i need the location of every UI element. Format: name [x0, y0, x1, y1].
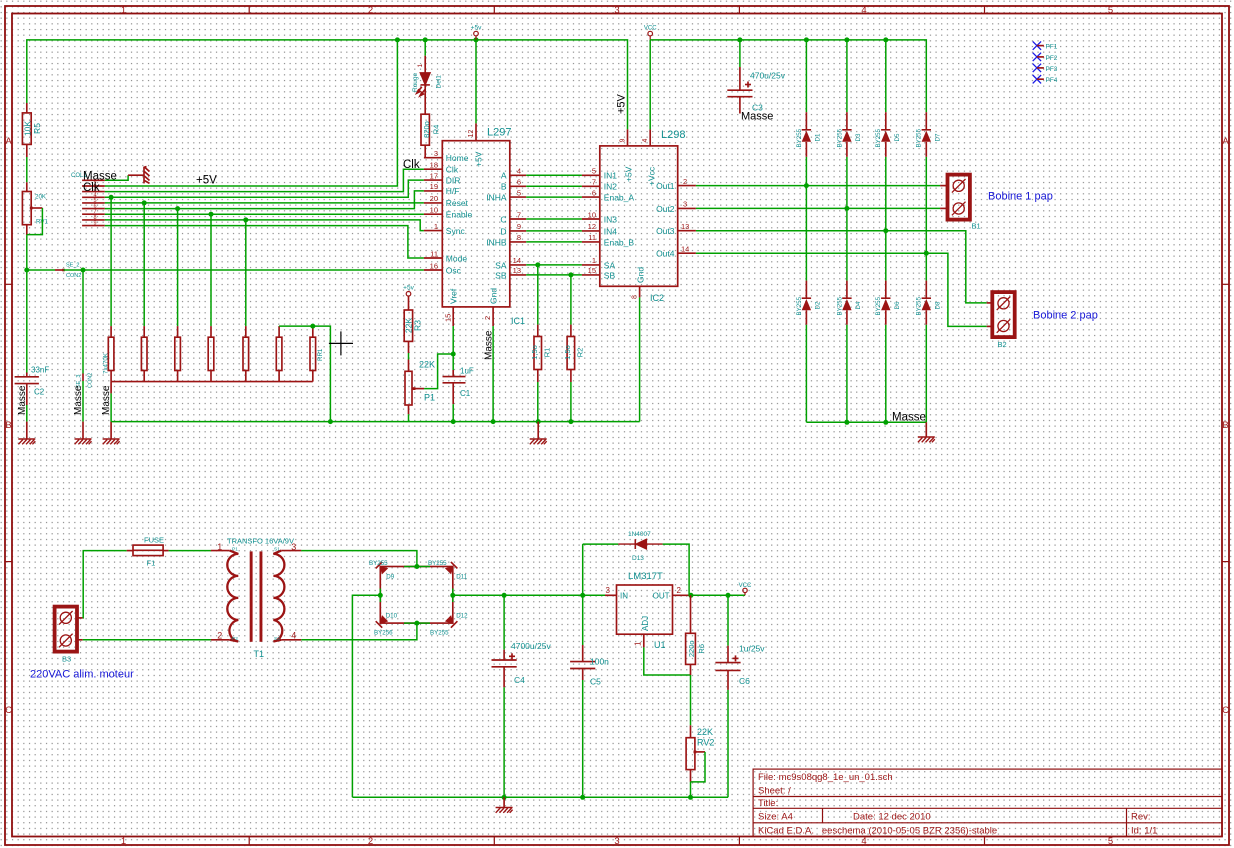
svg-text:1: 1	[417, 64, 424, 68]
svg-text:Vref: Vref	[449, 288, 459, 304]
svg-text:R1: R1	[543, 348, 552, 358]
svg-text:8: 8	[631, 295, 638, 299]
no-connect PF3	[1033, 64, 1041, 72]
svg-text:13: 13	[681, 222, 689, 231]
svg-text:1: 1	[121, 836, 126, 847]
node RV1/osc row junction	[24, 268, 29, 273]
connector CON2 pin (lower)	[82, 374, 84, 382]
transformer T1	[211, 551, 301, 640]
svg-text:R3: R3	[413, 320, 423, 331]
wire masse branch down	[82, 270, 84, 374]
svg-text:1,5o: 1,5o	[530, 345, 539, 360]
svg-text:CON2: CON2	[66, 273, 81, 279]
svg-text:B: B	[1222, 420, 1228, 431]
svg-text:+5V: +5V	[474, 151, 484, 167]
capacitor C5	[582, 595, 584, 645]
wire bridge minus to ground	[352, 595, 380, 797]
svg-text:10: 10	[588, 210, 596, 219]
svg-text:B: B	[501, 182, 507, 192]
Vcc rail wire	[650, 40, 926, 112]
svg-text:IN2: IN2	[604, 182, 618, 192]
svg-text:12: 12	[468, 130, 475, 138]
svg-text:INHA: INHA	[486, 193, 507, 203]
junction SA/R1	[535, 262, 540, 267]
svg-text:SE_2: SE_2	[66, 263, 79, 269]
svg-text:PF3: PF3	[1046, 66, 1058, 73]
masse rail diodes	[806, 421, 926, 423]
wire row6 to H/F pin 19	[105, 191, 424, 209]
svg-text:7x470K: 7x470K	[103, 352, 110, 374]
svg-text:PF1: PF1	[1046, 44, 1058, 51]
Vcc power symbol (output)	[743, 588, 747, 595]
svg-text:DIR: DIR	[446, 175, 461, 185]
IC2 left pin stubs	[582, 175, 600, 275]
wire row3 Clk to pin 18	[105, 169, 424, 191]
IC2 L298 body	[600, 146, 678, 286]
capacitor C2	[15, 373, 39, 406]
IC2 left pin names	[604, 171, 635, 281]
resistor network common rail	[111, 381, 313, 383]
svg-text:9: 9	[517, 222, 521, 231]
svg-text:17: 17	[430, 171, 438, 180]
ground symbol (sideways) row1	[128, 167, 149, 184]
potentiometer P1	[408, 360, 410, 372]
diode D6	[885, 281, 887, 299]
svg-text:OUT: OUT	[653, 592, 670, 601]
svg-text:4: 4	[861, 5, 866, 16]
svg-text:2: 2	[483, 316, 492, 320]
svg-text:RV2: RV2	[697, 738, 714, 748]
wires IC1 to IC2	[526, 175, 582, 275]
capacitor C6	[727, 595, 729, 645]
svg-text:H/F: H/F	[446, 186, 460, 196]
svg-text:7: 7	[517, 210, 521, 219]
wire P1 to rail	[408, 414, 410, 421]
svg-text:Clk: Clk	[83, 182, 100, 194]
svg-text:D10: D10	[386, 613, 398, 620]
wire ADJ to R6 bottom	[644, 647, 691, 675]
svg-text:D9: D9	[386, 574, 394, 581]
svg-text:4: 4	[642, 139, 649, 143]
junction +5V rail / LED	[423, 37, 428, 42]
wire T1 pin3 to bridge	[301, 551, 417, 567]
svg-text:1uF: 1uF	[460, 367, 474, 376]
svg-text:2: 2	[368, 836, 373, 847]
IC2 right pin numbers	[681, 177, 689, 254]
ground on rail	[537, 422, 539, 439]
svg-text:U1: U1	[654, 640, 666, 650]
Vcc power symbol	[648, 31, 653, 40]
potentiometer RV2	[690, 725, 692, 737]
svg-text:15: 15	[588, 266, 596, 275]
wire C2 to ground	[26, 405, 28, 422]
junction +5V rail / riser	[395, 37, 400, 42]
svg-text:P1: P1	[232, 547, 238, 553]
svg-text:P2: P2	[232, 636, 238, 642]
IC1 right pin names	[486, 171, 507, 281]
+5V symbol R3	[406, 292, 411, 297]
svg-text:3: 3	[683, 200, 687, 209]
svg-text:Masse: Masse	[892, 412, 926, 424]
svg-text:BY255: BY255	[796, 296, 803, 315]
svg-text:13: 13	[513, 266, 521, 275]
svg-text:FUSE: FUSE	[144, 536, 164, 545]
svg-text:Id: 1/1: Id: 1/1	[1131, 826, 1157, 837]
svg-text:9: 9	[93, 221, 96, 227]
connector COL1 pin numbers	[93, 181, 96, 227]
svg-text:SA: SA	[604, 260, 616, 270]
svg-text:D1: D1	[815, 133, 822, 141]
ground below masse branch	[82, 422, 84, 439]
wire IC1 gnd to rail	[492, 326, 494, 422]
svg-text:11: 11	[588, 233, 596, 242]
wire RV1 down to node	[26, 235, 28, 270]
resistor R1	[537, 265, 539, 325]
svg-text:C6: C6	[739, 676, 750, 686]
svg-text:Bobine 1 pap: Bobine 1 pap	[988, 191, 1053, 203]
svg-text:Masse: Masse	[17, 385, 28, 415]
wire bridge plus to LM317 IN	[453, 594, 605, 596]
title block	[753, 769, 1222, 836]
svg-text:R6: R6	[697, 644, 706, 654]
svg-text:BY255: BY255	[836, 128, 843, 147]
svg-text:3: 3	[614, 836, 619, 847]
svg-text:+5V: +5V	[196, 175, 217, 187]
svg-text:Sheet: /: Sheet: /	[758, 786, 791, 797]
+5V top rail wire	[27, 40, 628, 129]
svg-text:D6: D6	[894, 301, 901, 309]
svg-text:4: 4	[517, 167, 521, 176]
svg-text:D: D	[500, 226, 506, 236]
IC1 left pin names	[446, 153, 473, 275]
resistor R2	[570, 275, 572, 325]
svg-text:5: 5	[1108, 836, 1113, 847]
svg-text:Title:: Title:	[758, 798, 778, 809]
op-amp U1 ... IC1 L297 body	[442, 141, 510, 307]
svg-text:100n: 100n	[590, 657, 609, 667]
diode D11	[445, 562, 458, 575]
connector B1	[948, 175, 970, 220]
wire row5 to Reset pin 20	[105, 202, 424, 204]
diode D12	[445, 615, 458, 628]
svg-text:S2: S2	[274, 636, 280, 642]
svg-text:Gnd: Gnd	[489, 288, 499, 304]
IC1 right pin numbers	[513, 167, 521, 276]
LM317 ADJ pin	[643, 634, 645, 647]
bridge rectifier body	[380, 567, 453, 624]
IC1 bottom pins Vref Gnd	[452, 307, 454, 326]
diode D10	[376, 615, 389, 628]
svg-text:19: 19	[430, 182, 438, 191]
wire R6 to RV2	[690, 675, 692, 725]
svg-text:F1: F1	[147, 559, 156, 568]
svg-text:IN3: IN3	[604, 214, 618, 224]
svg-text:Masse: Masse	[741, 111, 773, 123]
connector B2	[992, 292, 1014, 337]
svg-text:D4: D4	[855, 301, 862, 309]
svg-text:BY256: BY256	[374, 630, 393, 637]
svg-text:16: 16	[430, 261, 438, 270]
wire OUT node	[691, 594, 745, 596]
svg-text:D11: D11	[456, 574, 467, 581]
svg-text:Clk: Clk	[403, 159, 420, 171]
svg-text:+5V: +5V	[616, 93, 628, 114]
LM317 IN pin	[605, 594, 617, 596]
diode D9	[376, 562, 389, 575]
osc row wire	[27, 269, 55, 271]
svg-text:Home: Home	[446, 153, 469, 163]
IC1 left pin stubs	[424, 158, 442, 270]
wire C1 to rail	[452, 404, 454, 421]
svg-text:P1: P1	[424, 393, 435, 403]
IC2 left pin numbers	[588, 167, 596, 276]
svg-text:14: 14	[681, 245, 689, 254]
junction osc row / masse branch	[81, 268, 86, 273]
svg-text:470u/25v: 470u/25v	[750, 71, 786, 81]
svg-text:A: A	[1222, 136, 1229, 147]
svg-text:Osc: Osc	[446, 265, 462, 275]
svg-text:BY255: BY255	[875, 128, 882, 147]
svg-text:5: 5	[592, 167, 596, 176]
svg-text:10: 10	[430, 206, 438, 215]
svg-text:PF4: PF4	[1046, 77, 1058, 84]
svg-text:11: 11	[430, 249, 438, 258]
svg-text:Enab_B: Enab_B	[604, 237, 635, 247]
svg-text:33nF: 33nF	[31, 366, 49, 375]
svg-text:Rouge: Rouge	[412, 72, 419, 92]
wire Out1	[696, 185, 940, 187]
svg-text:5: 5	[517, 188, 521, 197]
svg-text:Clk: Clk	[446, 165, 459, 175]
resistor R3	[408, 296, 410, 310]
svg-text:C: C	[500, 214, 506, 224]
svg-text:22K: 22K	[697, 727, 713, 737]
svg-text:1,5o: 1,5o	[563, 345, 572, 360]
svg-text:D7: D7	[935, 133, 942, 141]
no-connect PF4	[1033, 75, 1041, 83]
svg-text:Date: 12 dec 2010: Date: 12 dec 2010	[853, 812, 931, 823]
+5V power symbol	[474, 31, 479, 40]
svg-text:A: A	[501, 171, 507, 181]
svg-text:SB: SB	[604, 270, 616, 280]
svg-text:Enable: Enable	[446, 210, 473, 220]
wire B3 pin1 to fuse	[83, 551, 127, 618]
B3 pin stubs	[77, 617, 83, 619]
svg-text:L297: L297	[487, 127, 511, 139]
svg-text:IN: IN	[620, 592, 628, 601]
svg-text:Sync: Sync	[446, 226, 466, 236]
svg-text:BY255: BY255	[369, 560, 388, 567]
svg-text:1: 1	[121, 5, 126, 16]
svg-text:R2: R2	[576, 348, 585, 358]
wire B3 pin2 to transformer	[83, 639, 211, 641]
wire row9 to Mode pin 11	[105, 226, 424, 258]
svg-text:18: 18	[430, 161, 438, 170]
svg-text:S1: S1	[274, 547, 280, 553]
svg-text:B3: B3	[62, 655, 71, 664]
svg-text:1: 1	[434, 222, 438, 231]
IC1 left pin numbers	[430, 149, 438, 270]
wire Out2	[696, 207, 940, 209]
svg-text:D8: D8	[935, 301, 942, 309]
resistor network RR1 bodies	[108, 326, 315, 393]
svg-text:+5v: +5v	[471, 25, 482, 32]
svg-text:LM317T: LM317T	[628, 571, 663, 582]
svg-text:VCC: VCC	[739, 583, 752, 589]
svg-text:C2: C2	[34, 388, 45, 397]
wire row1 Masse to ground symbol	[105, 175, 128, 180]
svg-text:9: 9	[619, 139, 626, 143]
wire Out4	[696, 253, 987, 326]
junction +5V rail / +5V symbol	[474, 37, 479, 42]
diode D8	[925, 281, 927, 299]
svg-text:220o: 220o	[687, 640, 696, 657]
svg-text:BY255: BY255	[430, 630, 449, 637]
resistor R4	[421, 114, 429, 145]
no-connect PF2	[1033, 53, 1041, 61]
svg-text:D3: D3	[855, 133, 862, 141]
svg-text:TRANSFO 16VA/9V: TRANSFO 16VA/9V	[227, 537, 294, 546]
wire T1 pin4 to bridge	[301, 623, 417, 640]
svg-text:3: 3	[614, 5, 619, 16]
wire RV2 to rail	[690, 782, 692, 797]
cursor cross	[329, 331, 353, 355]
svg-text:7: 7	[592, 178, 596, 187]
svg-text:Masse: Masse	[101, 385, 112, 415]
capacitor C3	[739, 40, 741, 67]
svg-text:1u/25v: 1u/25v	[739, 644, 765, 654]
svg-text:CON2: CON2	[88, 373, 94, 388]
diode D5 column	[885, 40, 887, 422]
svg-text:SB: SB	[495, 270, 507, 280]
ground network common	[110, 422, 112, 439]
wire fuse to transformer	[169, 550, 211, 552]
svg-text:B1: B1	[972, 222, 981, 231]
svg-text:12: 12	[588, 222, 596, 231]
potentiometer RV1	[26, 182, 28, 191]
svg-text:IN4: IN4	[604, 226, 618, 236]
svg-text:C: C	[5, 705, 12, 716]
svg-text:IC2: IC2	[650, 293, 664, 303]
svg-text:ADJ: ADJ	[641, 616, 650, 631]
diode D1 column	[805, 40, 807, 422]
svg-text:2: 2	[683, 177, 687, 186]
svg-text:+5v: +5v	[403, 285, 414, 292]
LM317 OUT pin	[673, 594, 691, 596]
svg-text:BY255: BY255	[916, 128, 923, 147]
svg-text:B: B	[5, 420, 11, 431]
resistor R5	[26, 103, 28, 113]
wire osc row to pin 16	[64, 269, 424, 271]
svg-text:T1: T1	[254, 649, 265, 659]
svg-text:File: mc9s08qg8_1e_un_01.sch: File: mc9s08qg8_1e_un_01.sch	[758, 772, 893, 783]
bottom supply rail	[352, 796, 728, 798]
svg-text:1: 1	[592, 256, 596, 265]
svg-text:C: C	[1222, 705, 1229, 716]
svg-text:6: 6	[517, 178, 521, 187]
capacitor C1	[443, 370, 466, 404]
svg-text:A: A	[5, 136, 12, 147]
diode D7 column	[925, 157, 927, 423]
svg-text:Out2: Out2	[656, 204, 675, 214]
svg-text:6: 6	[592, 188, 596, 197]
junction dots bus rows	[109, 195, 114, 200]
wire RV1 wiper loop	[27, 208, 43, 235]
svg-text:SA: SA	[495, 260, 507, 270]
svg-text:Gnd: Gnd	[636, 267, 646, 283]
voltage regulator U1 LM317	[617, 585, 673, 634]
IC2 top pins	[627, 129, 629, 146]
diode D3 column	[846, 40, 848, 422]
svg-text:D12: D12	[456, 613, 468, 620]
wire P1 wiper to Vref node	[424, 354, 452, 389]
svg-text:B2: B2	[998, 340, 1007, 349]
svg-text:15: 15	[444, 314, 453, 322]
svg-text:RR1: RR1	[317, 348, 324, 361]
wire resistors 6-7 to ground rail	[279, 326, 330, 422]
wire to ground	[82, 381, 84, 422]
svg-text:1: 1	[634, 641, 643, 646]
svg-text:BY255: BY255	[836, 296, 843, 315]
wire node down to C2	[26, 270, 28, 373]
wire row7 to Enable pin 10	[105, 213, 424, 215]
rail riser to IC2 gnd	[639, 297, 641, 421]
connector COL1 pins	[82, 180, 105, 225]
svg-text:INHB: INHB	[486, 237, 507, 247]
resistor network verticals	[111, 197, 246, 326]
svg-text:BY255: BY255	[428, 560, 447, 567]
svg-text:VCC: VCC	[644, 26, 657, 32]
IC2 right pin stubs	[678, 186, 696, 254]
svg-text:IN1: IN1	[604, 171, 618, 181]
diode D13 1N4007	[582, 544, 584, 595]
IC2 right pin names	[656, 181, 675, 259]
resistor R6	[690, 595, 692, 633]
svg-text:14: 14	[513, 256, 521, 265]
svg-text:C1: C1	[460, 389, 471, 398]
svg-text:IC1: IC1	[511, 316, 525, 326]
connector CON2 pin (1-pin)	[55, 269, 64, 271]
svg-text:D2: D2	[815, 301, 822, 309]
wire R3 to P1	[408, 353, 410, 360]
svg-text:820o: 820o	[422, 121, 431, 138]
svg-text:+5V: +5V	[624, 166, 634, 182]
svg-text:R4: R4	[432, 125, 441, 135]
svg-text:Reset: Reset	[446, 198, 469, 208]
wire row2 to +5V riser	[105, 40, 398, 186]
IC1 right pin stubs	[510, 175, 526, 275]
capacitor C4	[503, 595, 505, 649]
svg-text:KiCad E.D.A. eeschema (2010-: KiCad E.D.A. eeschema (2010-05-05 BZR 23…	[758, 826, 997, 837]
svg-text:Del1: Del1	[436, 75, 443, 89]
svg-text:2: 2	[368, 5, 373, 16]
wire row8 to Sync pin 1	[105, 220, 424, 231]
svg-text:8: 8	[517, 233, 521, 242]
svg-text:4700u/25v: 4700u/25v	[511, 641, 551, 651]
LED Del1	[424, 40, 426, 56]
wire row4 to DIR pin 17	[105, 180, 424, 197]
svg-text:Out1: Out1	[656, 181, 675, 191]
svg-text:BY255: BY255	[875, 296, 882, 315]
svg-text:5: 5	[1108, 5, 1113, 16]
ground below C2	[26, 422, 28, 439]
wire Out3	[696, 231, 987, 303]
svg-text:Bobine 2 pap: Bobine 2 pap	[1033, 310, 1098, 322]
ground supply rail	[503, 797, 505, 807]
svg-text:2: 2	[217, 631, 222, 641]
diode D2	[805, 281, 807, 299]
svg-text:+Vcc: +Vcc	[647, 166, 657, 186]
